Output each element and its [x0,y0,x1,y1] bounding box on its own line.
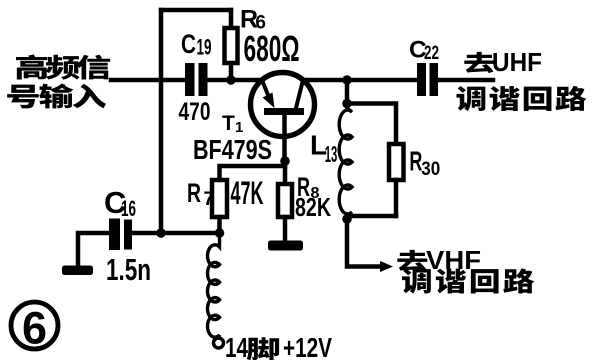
resistor R30 [389,144,404,216]
svg-text:47K: 47K [231,175,264,211]
label T1 [222,112,243,136]
junction: emitter node [226,75,236,85]
junction: tank bottom node [342,214,352,224]
wire: input lead [111,78,186,83]
wire: left vertical rail [159,10,164,233]
svg-text:BF479S: BF479S [193,134,272,165]
label C19 [181,29,212,60]
label C22 [409,37,439,65]
junction: tank top node [342,99,352,109]
wire: tank bottom [347,214,396,219]
wire: C16 to +12V node [132,231,220,236]
resistor R7 [212,180,227,233]
svg-text:R: R [187,178,201,208]
terminal: pin 14 open circle [214,338,224,348]
svg-text:19: 19 [197,35,212,60]
label R30 [409,146,440,180]
ground: left of C16 [62,266,93,276]
svg-text:13: 13 [325,141,338,167]
junction: rail meets bypass wire [156,228,166,238]
label R8 [297,172,320,202]
node: VHF 调谐回路 label [402,268,534,293]
svg-text:30: 30 [421,159,440,180]
capacitor C16 [109,219,132,251]
junction: +12V feed node [215,228,225,238]
node: 去VHF output label [397,245,481,275]
label R6 [240,6,266,34]
figure number 6 in circle [11,302,58,354]
svg-text:UHF: UHF [492,47,542,77]
wire: collector to C22 [303,78,417,83]
inductor L13 [339,104,352,220]
svg-text:C: C [181,29,196,59]
wire: top horizontal feed [161,8,231,13]
wire: C19 to emitter [208,78,263,83]
wire: C22 to UHF output [438,78,493,83]
inductor: RF choke to pin 14 [208,233,220,338]
svg-text:470: 470 [179,98,211,126]
svg-text:+12V: +12V [283,332,332,360]
svg-text:1.5n: 1.5n [106,252,151,287]
svg-text:22: 22 [424,43,439,64]
node: RF signal input label 高频信号输入 [7,55,110,109]
svg-text:7: 7 [204,189,215,210]
svg-text:82K: 82K [295,192,331,222]
svg-text:16: 16 [121,196,136,221]
svg-text:T: T [222,112,235,135]
node: 去UHF output label [464,47,542,77]
label C16 [104,185,136,221]
svg-text:680Ω: 680Ω [244,28,300,69]
svg-text:14: 14 [225,332,248,360]
capacitor C19 [185,63,208,96]
junction: base node [280,156,290,166]
wire: tank top to R30 top [347,104,396,145]
ground: below R8 [268,241,303,251]
junction: collector node [342,75,352,85]
svg-text:6: 6 [22,303,47,354]
label L13 [310,130,337,167]
transistor T1 [251,73,315,162]
wire: base to R7 [220,161,286,180]
resistor R8 [278,161,292,241]
wire: C16 to ground [78,233,109,266]
label R7 [187,178,214,210]
capacitor C22 [417,63,438,96]
resistor R6 [225,10,238,80]
label 14脚 +12V supply [225,332,332,360]
wire: collector node down [345,80,350,104]
node: UHF 调谐回路 label [456,86,586,111]
wire: VHF takeoff with arrow [347,219,393,272]
